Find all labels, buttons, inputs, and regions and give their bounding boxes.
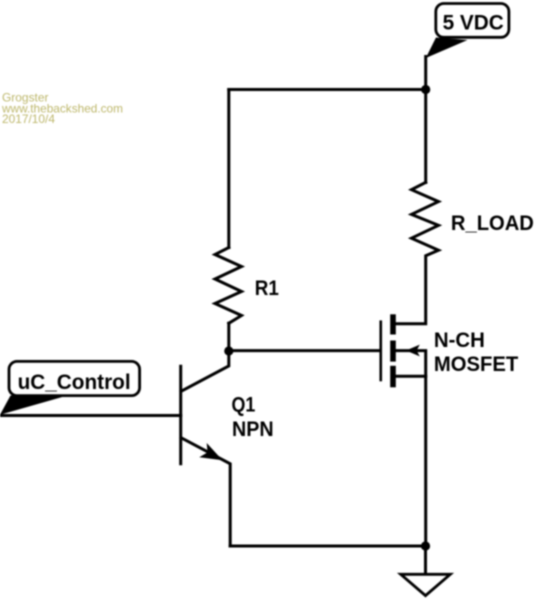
svg-text:Q1: Q1 — [232, 394, 256, 417]
svg-text:R_LOAD: R_LOAD — [451, 212, 534, 235]
svg-text:uC_Control: uC_Control — [18, 371, 131, 394]
svg-text:MOSFET: MOSFET — [434, 353, 518, 376]
svg-text:5 VDC: 5 VDC — [443, 12, 504, 35]
svg-text:R1: R1 — [255, 277, 279, 300]
svg-text:N-CH: N-CH — [434, 329, 485, 352]
svg-text:2017/10/4: 2017/10/4 — [2, 112, 55, 126]
svg-text:NPN: NPN — [232, 418, 274, 441]
